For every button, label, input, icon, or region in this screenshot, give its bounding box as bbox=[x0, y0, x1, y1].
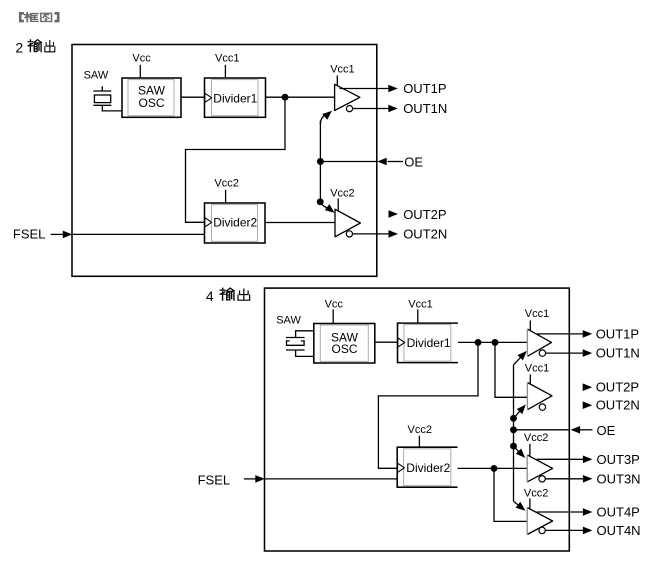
wire: OE vertical distribution bbox=[513, 365, 515, 502]
power net Vcc2 (buffer U12) bbox=[524, 487, 548, 509]
svg-text:2: 2 bbox=[15, 40, 23, 56]
svg-text:Vcc2: Vcc2 bbox=[524, 432, 548, 444]
svg-text:SAW: SAW bbox=[276, 315, 301, 327]
power net Vcc1 (buffer U10) bbox=[525, 362, 549, 384]
power net Vcc1 (divider U2) bbox=[215, 53, 239, 79]
svg-text:Divider1: Divider1 bbox=[407, 336, 451, 350]
enable arrow into buffer U12 bbox=[514, 501, 526, 510]
junction node F on U8 output bbox=[491, 465, 498, 472]
buffer U11 (output buffer 3) bbox=[527, 455, 552, 482]
svg-text:Vcc2: Vcc2 bbox=[408, 424, 432, 436]
wire: U3 output to buffer U5 input bbox=[265, 222, 335, 224]
wire: node E to buffer U10 input bbox=[495, 342, 527, 397]
arrowhead only: net OUT2P bbox=[389, 210, 399, 218]
svg-text:Vcc2: Vcc2 bbox=[214, 177, 238, 189]
block boundary box (2-output device) bbox=[72, 45, 377, 277]
svg-text:OE: OE bbox=[404, 154, 423, 169]
power net Vcc2 (buffer U5) bbox=[330, 187, 354, 210]
svg-text:Vcc: Vcc bbox=[325, 298, 344, 310]
svg-text:OSC: OSC bbox=[332, 342, 358, 356]
wire: node D to divider U8 clock input bbox=[378, 342, 478, 468]
header title 【框图】 bbox=[20, 13, 58, 22]
power net Vcc1 (buffer U4) bbox=[330, 63, 354, 86]
divider U3 (Divider2) bbox=[205, 203, 266, 243]
wire: FSEL to divider U3 bbox=[72, 233, 205, 235]
wire: node A to divider U3 clock input bbox=[186, 97, 286, 222]
net OUT1P wire bbox=[340, 85, 398, 93]
svg-text:Vcc: Vcc bbox=[132, 53, 151, 65]
input port OE (4-output) bbox=[571, 423, 616, 438]
svg-text:OSC: OSC bbox=[139, 96, 165, 110]
wire: OE into box bbox=[514, 429, 570, 431]
crystal X2 bbox=[286, 331, 314, 357]
junction node C on OE net bbox=[317, 198, 324, 205]
svg-text:OUT3N: OUT3N bbox=[597, 471, 641, 486]
buffer U4 (output buffer 1) bbox=[335, 84, 360, 110]
wire: crystal X1 to oscillator U1 input bbox=[102, 105, 122, 111]
buffer U9 (output buffer 1) bbox=[527, 329, 551, 356]
crystal X1 bbox=[93, 86, 111, 105]
junction node E on U7 output bbox=[492, 339, 499, 346]
wire: U1 output to divider U2 bbox=[181, 96, 205, 98]
divider U2 (Divider1) bbox=[205, 78, 266, 117]
svg-text:OUT3P: OUT3P bbox=[597, 452, 640, 467]
wire: U6 output to divider U7 bbox=[375, 341, 398, 343]
enable arrow into buffer U11 bbox=[514, 446, 526, 458]
svg-text:FSEL: FSEL bbox=[13, 226, 46, 241]
net OUT1P wire (4-output) bbox=[537, 330, 592, 338]
svg-text:Vcc1: Vcc1 bbox=[215, 53, 239, 65]
svg-text:Divider1: Divider1 bbox=[213, 91, 257, 105]
svg-text:OE: OE bbox=[597, 423, 616, 438]
section label: 4 输出 bbox=[206, 288, 250, 304]
svg-text:OUT2P: OUT2P bbox=[403, 207, 446, 222]
bubble: U9 inverted output bbox=[539, 350, 545, 356]
svg-text:OUT2N: OUT2N bbox=[596, 398, 640, 413]
junction node D on U7 output bbox=[475, 339, 482, 346]
enable arrow into buffer U4 bbox=[320, 111, 332, 124]
wire: OE vertical distribution bbox=[319, 121, 321, 202]
power net Vcc2 (divider U8) bbox=[408, 424, 432, 448]
oscillator U6 (SAW OSC) bbox=[314, 324, 375, 364]
svg-text:SAW: SAW bbox=[84, 70, 109, 82]
svg-text:OUT1N: OUT1N bbox=[403, 101, 447, 116]
input port OE (2-output) bbox=[377, 154, 423, 169]
net OUT1N wire (4-output) bbox=[546, 349, 593, 357]
bubble: U5 inverted output bbox=[346, 231, 352, 237]
power net Vcc2 (divider U3) bbox=[214, 177, 238, 203]
bubble: U12 inverted output bbox=[539, 527, 545, 533]
svg-text:OUT1P: OUT1P bbox=[403, 81, 446, 96]
svg-text:Vcc1: Vcc1 bbox=[408, 298, 432, 310]
svg-text:FSEL: FSEL bbox=[198, 472, 231, 487]
input port FSEL (4-output) bbox=[198, 472, 265, 487]
svg-text:Vcc2: Vcc2 bbox=[524, 487, 548, 499]
net OUT4P wire bbox=[537, 508, 593, 516]
svg-text:OUT1N: OUT1N bbox=[596, 345, 640, 360]
buffer U5 (output buffer 2) bbox=[335, 209, 360, 237]
junction node I on OE net bbox=[510, 443, 517, 450]
wire: FSEL to divider U8 bbox=[265, 478, 398, 480]
power net Vcc1 (buffer U9) bbox=[525, 308, 549, 330]
junction node B on OE net bbox=[317, 158, 324, 165]
arrowhead only: net OUT2N (4-output) bbox=[583, 401, 593, 409]
section label: 2 输出 bbox=[15, 40, 54, 56]
bubble: U11 inverted output bbox=[539, 476, 545, 482]
net OUT2N wire bbox=[353, 230, 399, 238]
svg-text:Divider2: Divider2 bbox=[406, 461, 450, 475]
bubble: U4 inverted output bbox=[346, 106, 352, 112]
svg-text:Divider2: Divider2 bbox=[213, 216, 257, 230]
svg-text:OUT2P: OUT2P bbox=[596, 380, 639, 395]
svg-text:OUT1P: OUT1P bbox=[596, 326, 639, 341]
arrowhead only: net OUT2P (4-output) bbox=[583, 383, 593, 391]
bubble: U10 inverted output bbox=[539, 404, 545, 410]
buffer U12 (output buffer 4) bbox=[527, 508, 552, 535]
svg-text:4: 4 bbox=[206, 288, 214, 304]
svg-text:Vcc1: Vcc1 bbox=[525, 308, 549, 320]
power net Vcc1 (divider U7) bbox=[408, 298, 432, 323]
junction node G on OE net bbox=[510, 415, 517, 422]
junction node H on OE net bbox=[510, 426, 517, 433]
net OUT3N wire bbox=[545, 475, 592, 483]
block boundary box (4-output device) bbox=[265, 288, 570, 551]
svg-text:OUT2N: OUT2N bbox=[403, 227, 447, 242]
oscillator U1 (SAW OSC) bbox=[122, 78, 181, 117]
wire: OE into box to node B bbox=[320, 161, 376, 163]
power net Vcc (oscillator U1) bbox=[132, 53, 151, 79]
buffer U10 (output buffer 2) bbox=[527, 383, 552, 410]
power net Vcc2 (buffer U11) bbox=[524, 432, 548, 456]
wire: U8 output to buffer U11 input bbox=[458, 467, 528, 469]
input port FSEL (2-output) bbox=[13, 226, 72, 241]
net OUT4N wire bbox=[545, 527, 592, 535]
svg-text:OUT4N: OUT4N bbox=[597, 523, 641, 538]
enable arrow into buffer U10 bbox=[514, 405, 526, 419]
wire: node F to buffer U12 input bbox=[494, 468, 527, 521]
junction node A on U2 output bbox=[282, 94, 289, 101]
net OUT3P wire bbox=[537, 456, 593, 464]
svg-text:OUT4P: OUT4P bbox=[597, 504, 640, 519]
svg-text:Vcc2: Vcc2 bbox=[330, 187, 354, 199]
divider U8 (Divider2, open right side) bbox=[397, 447, 457, 487]
divider U7 (Divider1, open right side) bbox=[398, 323, 459, 363]
wire: U7 output to buffer U9 input bbox=[458, 341, 527, 343]
enable arrow into buffer U5 bbox=[320, 202, 334, 213]
net OUT1N wire bbox=[353, 105, 398, 113]
wire: U2 output to buffer U4 input bbox=[266, 96, 335, 98]
svg-text:Vcc1: Vcc1 bbox=[330, 63, 354, 75]
svg-text:Vcc1: Vcc1 bbox=[525, 362, 549, 374]
enable arrow into buffer U9 bbox=[514, 351, 527, 365]
power net Vcc (oscillator U6) bbox=[325, 298, 344, 323]
